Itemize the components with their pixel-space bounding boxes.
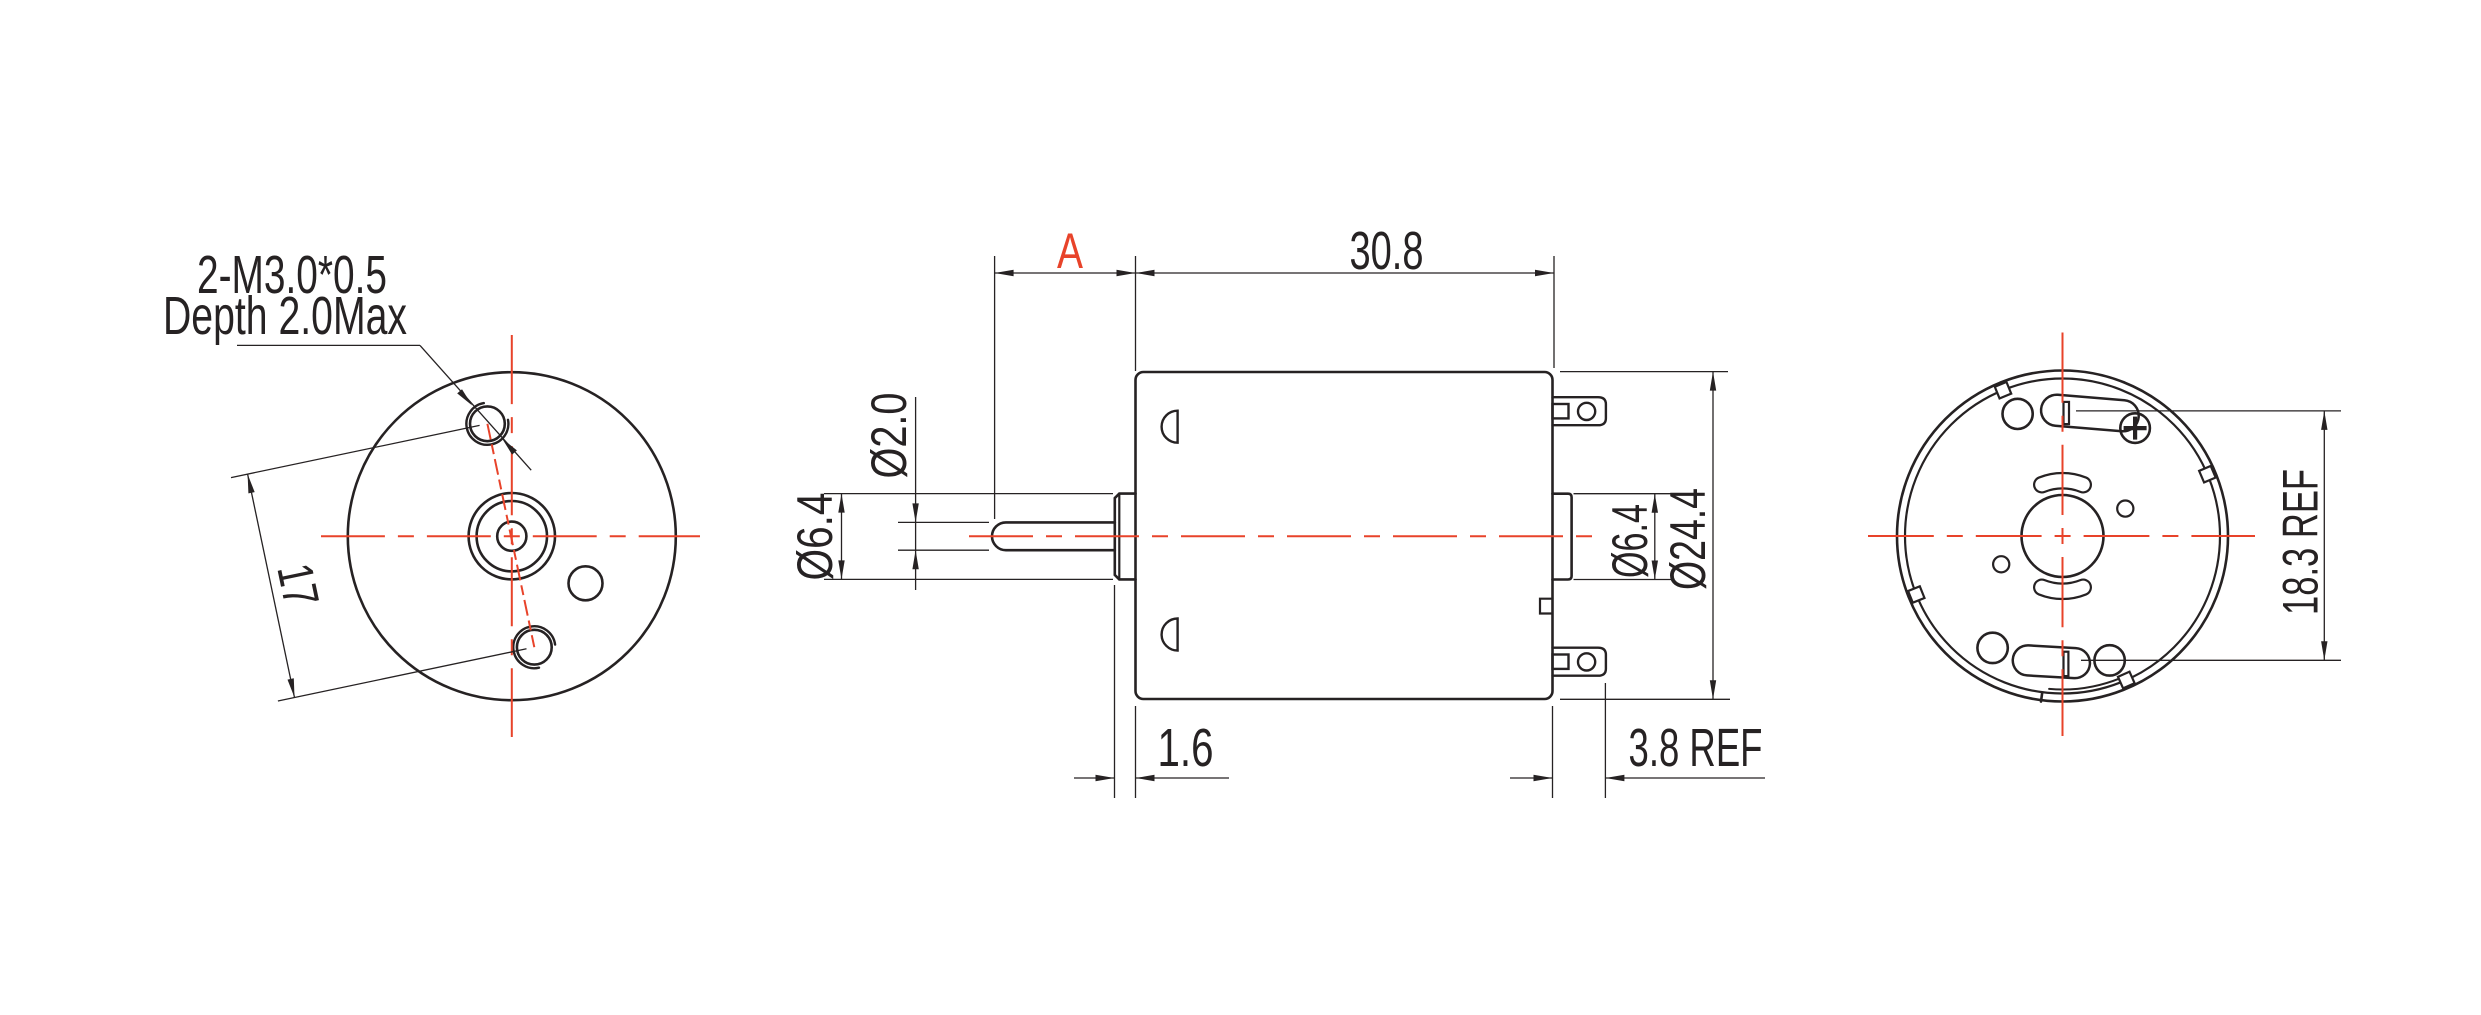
- rear view: top-left rivet circle: [2003, 399, 2033, 429]
- dim A: dimension line: [995, 272, 1136, 274]
- svg-text:A: A: [1057, 223, 1083, 279]
- side view: bottom terminal slot: [1553, 655, 1569, 669]
- side view: collar chamfer inner line: [1118, 494, 1120, 580]
- side view: bottom terminal hole: [1578, 653, 1595, 670]
- svg-text:30.8: 30.8: [1350, 221, 1424, 281]
- svg-text:Ø24.4: Ø24.4: [1660, 488, 1716, 590]
- rear view: bottom arc vent slot: [2042, 587, 2083, 591]
- side view: bottom terminal tab: [1553, 648, 1606, 676]
- svg-text:Ø2.0: Ø2.0: [861, 393, 917, 479]
- dim 30.8: right extension line: [1553, 256, 1555, 368]
- side view: top terminal tab: [1553, 397, 1606, 425]
- dim D2.0: dimension line vertical: [915, 397, 917, 590]
- front view: bearing boss inner circle: [477, 501, 547, 571]
- front view: bottom M3 tapped hole minor circle: [517, 630, 552, 665]
- svg-text:Depth 2.0Max: Depth 2.0Max: [163, 286, 407, 346]
- front view: angled red center line through mounting holes: [487, 424, 534, 647]
- rear view: flange notch at 112.2 deg: [1995, 382, 2011, 398]
- front view: bottom M3 tapped hole thread arc (gap lower-right): [513, 626, 555, 668]
- front view: vertical red center line: [511, 335, 513, 737]
- dim D6.4 left: dimension line: [841, 494, 843, 580]
- dim D6.4 right: dimension line: [1654, 494, 1656, 580]
- front view: dimension line for 17: [248, 474, 295, 697]
- rear view: bottom-left rivet circle: [1977, 633, 2007, 663]
- dim 3.8 REF: extension lines: [1552, 706, 1554, 798]
- rear view: top brush slot stadium: [2057, 410, 2124, 415]
- front view: leader line through top hole: [420, 345, 531, 470]
- side view: shaft with rounded end: [992, 522, 1115, 550]
- side view: motor body rectangle: [1136, 372, 1553, 699]
- front view: horizontal red center line: [321, 535, 700, 537]
- rear view: top arc vent slot: [2042, 481, 2083, 485]
- rear view: bottom brush slot stadium: [2028, 660, 2075, 663]
- side view: small notch on right edge: [1540, 599, 1553, 614]
- svg-text:3.8 REF: 3.8 REF: [1629, 718, 1763, 778]
- rear view: bottom-right rivet circle: [2094, 645, 2124, 675]
- dim 30.8: dimension line: [1136, 272, 1555, 274]
- dim 1.6: extension lines: [1114, 585, 1116, 798]
- rear view: flange notch at 293.9 deg: [2118, 672, 2135, 689]
- front view: dim 17 arrowheads: [248, 474, 255, 493]
- dim 1.6: dimension line with outside arrows: [1074, 777, 1115, 779]
- rear view: small hole upper-right: [2117, 501, 2133, 517]
- dim 18.3 REF: dimension line: [2323, 411, 2325, 660]
- dim A: left extension line: [994, 256, 996, 519]
- front view: top M3 tapped hole thread arc (gap upper-right): [466, 403, 508, 445]
- dim D6.4 right: extension lines from rear boss: [1574, 493, 1672, 495]
- rear view: inner flange circle: [1905, 379, 2220, 694]
- dim D24.4: extension lines: [1560, 371, 1728, 373]
- side view: lower vent half-circle: [1162, 619, 1178, 651]
- dim D2.0: extension lines from shaft: [898, 521, 989, 523]
- rear view: small hole lower-left: [1993, 556, 2009, 572]
- front view: leader underline from note: [237, 344, 420, 346]
- dim 18.3 REF: extension lines: [2076, 410, 2341, 412]
- svg-text:1.6: 1.6: [1158, 718, 1214, 778]
- front view: extension line from bottom hole for dim 17: [278, 649, 527, 701]
- side view: horizontal red center line: [969, 535, 1601, 537]
- svg-text:18.3 REF: 18.3 REF: [2273, 469, 2329, 615]
- rear view: horizontal red center line: [1868, 535, 2255, 537]
- dim D24.4: dimension line: [1712, 372, 1714, 700]
- svg-text:Ø6.4: Ø6.4: [787, 493, 843, 581]
- side view: top terminal hole: [1578, 403, 1595, 420]
- svg-text:Ø6.4: Ø6.4: [1602, 504, 1658, 578]
- front view: motor end-cap face outline circle: [348, 372, 676, 700]
- front view: plain locating hole: [569, 566, 603, 600]
- side view: rear bearing boss: [1553, 494, 1572, 580]
- rear view: bottom brush contact bar: [2064, 652, 2069, 676]
- front view: extension line from top hole for dim 17: [231, 425, 480, 477]
- rear view: center shaft hole: [2022, 495, 2104, 577]
- rear view: outer circle: [1897, 371, 2228, 702]
- side view: top terminal slot: [1553, 404, 1569, 418]
- rear view: extra flange arc near bottom: [2049, 678, 2120, 689]
- side view: front bushing collar with chamfers: [1115, 494, 1136, 580]
- rear view: vertical red center line: [2062, 333, 2064, 737]
- rear view: flange notch at 23.1 deg: [2199, 466, 2216, 483]
- front view: shaft hole circle: [497, 522, 526, 551]
- rear view: flange notch at 201.8 deg: [1908, 586, 1924, 602]
- front view: top M3 tapped hole minor circle: [470, 406, 505, 441]
- rear view: crosshead screw: [2120, 413, 2150, 443]
- rear view: flange split tick at bottom: [2041, 693, 2042, 702]
- front view: leader arrowheads on thread circle: [457, 389, 472, 405]
- dim 3.8 REF: dimension line with outside arrows: [1510, 777, 1553, 779]
- dim D6.4 left: extension lines from collar: [824, 493, 1113, 495]
- side view: upper vent half-circle: [1162, 411, 1178, 443]
- front view: bearing boss outer circle: [469, 493, 555, 579]
- dim A/30.8: shared extension line at body left: [1135, 256, 1137, 371]
- rear view: top brush contact bar: [2064, 402, 2070, 424]
